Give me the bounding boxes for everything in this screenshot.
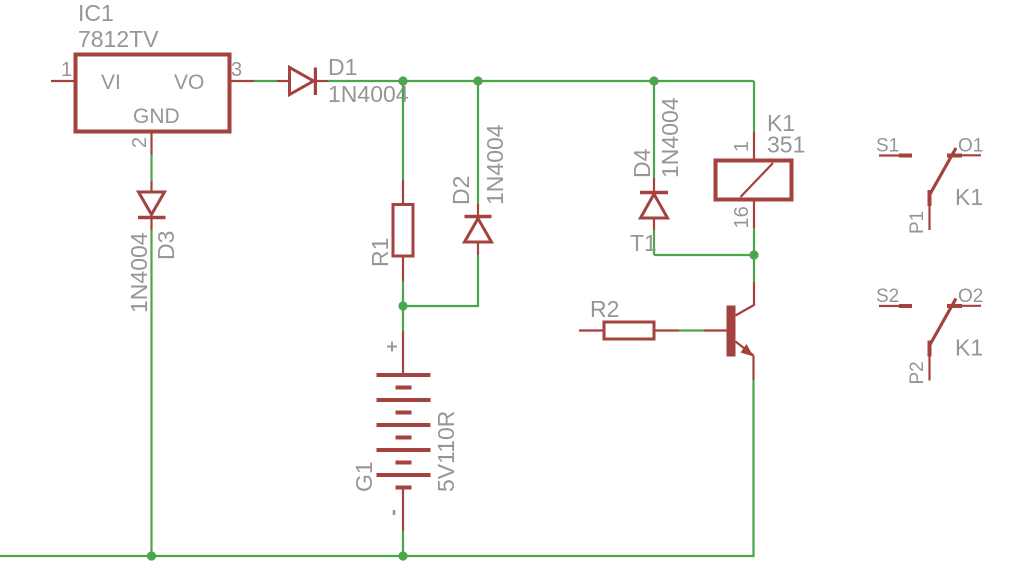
wire net junction to battery	[402, 306, 404, 331]
contact S1 pin line	[879, 154, 899, 156]
diode D2 anode stub	[477, 242, 479, 255]
svg-text:1N4004: 1N4004	[482, 124, 508, 205]
svg-text:7812TV: 7812TV	[78, 26, 159, 52]
wire top net corner down to relay	[753, 81, 755, 132]
contact O2 pin line	[962, 305, 981, 307]
svg-text:1N4004: 1N4004	[657, 97, 683, 178]
diode D3 cathode stub	[150, 218, 152, 231]
svg-text:R1: R1	[367, 238, 393, 267]
junction node battery bus	[398, 551, 407, 560]
svg-text:O1: O1	[958, 136, 983, 157]
wire net R1 to junction	[402, 281, 404, 306]
svg-text:5V110R: 5V110R	[433, 411, 459, 492]
wire net D4 down	[653, 230, 655, 255]
transistor T1 emitter stub	[752, 356, 754, 380]
wire net D2 to R1 junction	[403, 305, 479, 307]
diode D1 cathode stub	[315, 80, 328, 82]
resistor R1 top stub	[402, 180, 404, 205]
diode D4 triangle	[641, 194, 668, 218]
svg-text:2: 2	[129, 137, 151, 148]
battery G1 long plate 2	[377, 398, 431, 402]
IC1 pin 1 stub	[51, 80, 76, 82]
contact O2 terminal	[947, 304, 962, 308]
svg-text:O2: O2	[958, 286, 983, 307]
contact S1 terminal	[899, 154, 912, 158]
svg-text:P1: P1	[907, 211, 928, 234]
wire net D2 down	[477, 255, 479, 306]
wire net top to D2	[477, 81, 479, 204]
wire top net D1 to relay corner	[328, 80, 754, 82]
wire net battery to bus	[402, 531, 404, 556]
diode D2 cathode stub	[477, 204, 479, 217]
relay K1 pin 16 stub	[753, 200, 755, 229]
junction node D2 top	[473, 76, 482, 85]
wire net D4 to transistor junction	[654, 254, 754, 256]
diode D1 anode stub	[277, 80, 288, 82]
diode D4 cathode bar	[640, 191, 668, 195]
junction node R1 top	[398, 76, 407, 85]
battery G1 short plate 5	[396, 486, 412, 490]
diode D4 anode stub	[653, 218, 655, 230]
svg-text:VO: VO	[174, 71, 204, 94]
contact P1 pivot	[928, 190, 932, 206]
relay K1 coil body	[716, 161, 792, 200]
diode D1 cathode bar	[314, 68, 317, 96]
wire net top to D4	[653, 81, 655, 178]
resistor R1 bottom stub	[402, 256, 404, 281]
svg-text:1: 1	[61, 59, 72, 81]
resistor R2 left stub	[579, 329, 604, 331]
IC1 pin 2 stub	[150, 132, 152, 156]
svg-text:P2: P2	[907, 361, 928, 384]
battery G1 short plate 2	[396, 411, 412, 415]
contact K1 lever 2	[930, 299, 957, 346]
svg-text:K1: K1	[955, 184, 983, 210]
svg-text:3: 3	[231, 59, 242, 81]
diode D3 cathode bar	[138, 216, 166, 220]
contact S2 pin line	[879, 305, 899, 307]
svg-text:VI: VI	[101, 71, 121, 94]
contact P1 pin line	[928, 206, 930, 230]
diode D3 anode stub	[150, 181, 152, 192]
transistor T1 base bar	[727, 306, 736, 357]
resistor R2 right stub	[654, 329, 679, 331]
svg-text:D2: D2	[448, 176, 474, 205]
battery G1 long plate 4	[377, 448, 431, 452]
IC IC1 body	[76, 55, 230, 132]
svg-text:K1: K1	[955, 335, 983, 361]
transistor T1 emitter lead	[736, 342, 754, 356]
wire net R2 to base	[679, 329, 704, 331]
junction node R1 bottom battery	[398, 301, 407, 310]
svg-text:GND: GND	[133, 105, 180, 128]
wire net D3 to bus	[150, 230, 152, 556]
IC1 pin 3 stub	[230, 80, 255, 82]
battery G1 plus pin stub	[402, 331, 404, 375]
battery G1 short plate 1	[396, 386, 412, 390]
junction node relay transistor	[749, 250, 758, 259]
svg-text:D1: D1	[328, 54, 357, 80]
contact K1 lever 1	[930, 148, 957, 195]
battery G1 long plate 3	[377, 423, 431, 427]
svg-text:S1: S1	[876, 136, 899, 157]
svg-text:T1: T1	[630, 230, 657, 256]
junction node D3 bus	[147, 551, 156, 560]
transistor T1 collector lead	[736, 282, 755, 316]
svg-text:R2: R2	[590, 296, 619, 322]
wire net relay to junction	[753, 228, 755, 255]
svg-text:D4: D4	[629, 148, 655, 178]
svg-text:1N4004: 1N4004	[328, 81, 409, 107]
wire net pin3 to D1	[254, 80, 277, 82]
svg-text:IC1: IC1	[78, 0, 114, 26]
battery G1 minus sign	[393, 510, 396, 515]
svg-text:1N4004: 1N4004	[126, 232, 152, 313]
transistor T1 base stub	[704, 329, 727, 331]
diode D1 triangle	[290, 68, 314, 95]
battery G1 short plate 4	[396, 461, 412, 465]
battery G1 short plate 3	[396, 436, 412, 440]
wire net IC1 gnd down	[150, 155, 152, 181]
contact P2 pivot	[928, 341, 932, 357]
contact O1 pin line	[962, 154, 981, 156]
diode D3 triangle	[139, 192, 165, 215]
transistor T1 emitter arrow	[741, 344, 754, 357]
resistor R2 body	[604, 322, 654, 339]
svg-text:351: 351	[767, 132, 805, 158]
battery G1 plus sign	[387, 342, 397, 352]
battery G1 minus pin stub	[402, 488, 404, 532]
diode D2 triangle	[465, 219, 492, 243]
contact O1 terminal	[947, 154, 962, 158]
relay K1 coil diagonal	[741, 163, 774, 197]
svg-text:G1: G1	[351, 461, 377, 492]
resistor R1 body	[393, 205, 413, 257]
wire net junction to collector	[753, 255, 755, 282]
wire net top to R1	[402, 81, 404, 180]
diode D4 cathode stub	[653, 178, 655, 193]
contact S2 terminal	[899, 304, 912, 308]
ground bus wire	[0, 555, 754, 557]
svg-text:D3: D3	[153, 231, 179, 260]
diode D2 cathode bar	[465, 215, 492, 219]
junction node D4 top	[649, 76, 658, 85]
svg-text:S2: S2	[876, 286, 899, 307]
relay K1 pin 1 stub	[753, 132, 755, 161]
svg-text:16: 16	[731, 206, 753, 228]
wire net emitter to bus	[752, 380, 754, 558]
battery G1 long plate 1	[377, 373, 431, 377]
battery G1 long plate 5	[377, 473, 431, 477]
contact P2 pin line	[928, 357, 930, 381]
svg-text:1: 1	[731, 141, 753, 152]
